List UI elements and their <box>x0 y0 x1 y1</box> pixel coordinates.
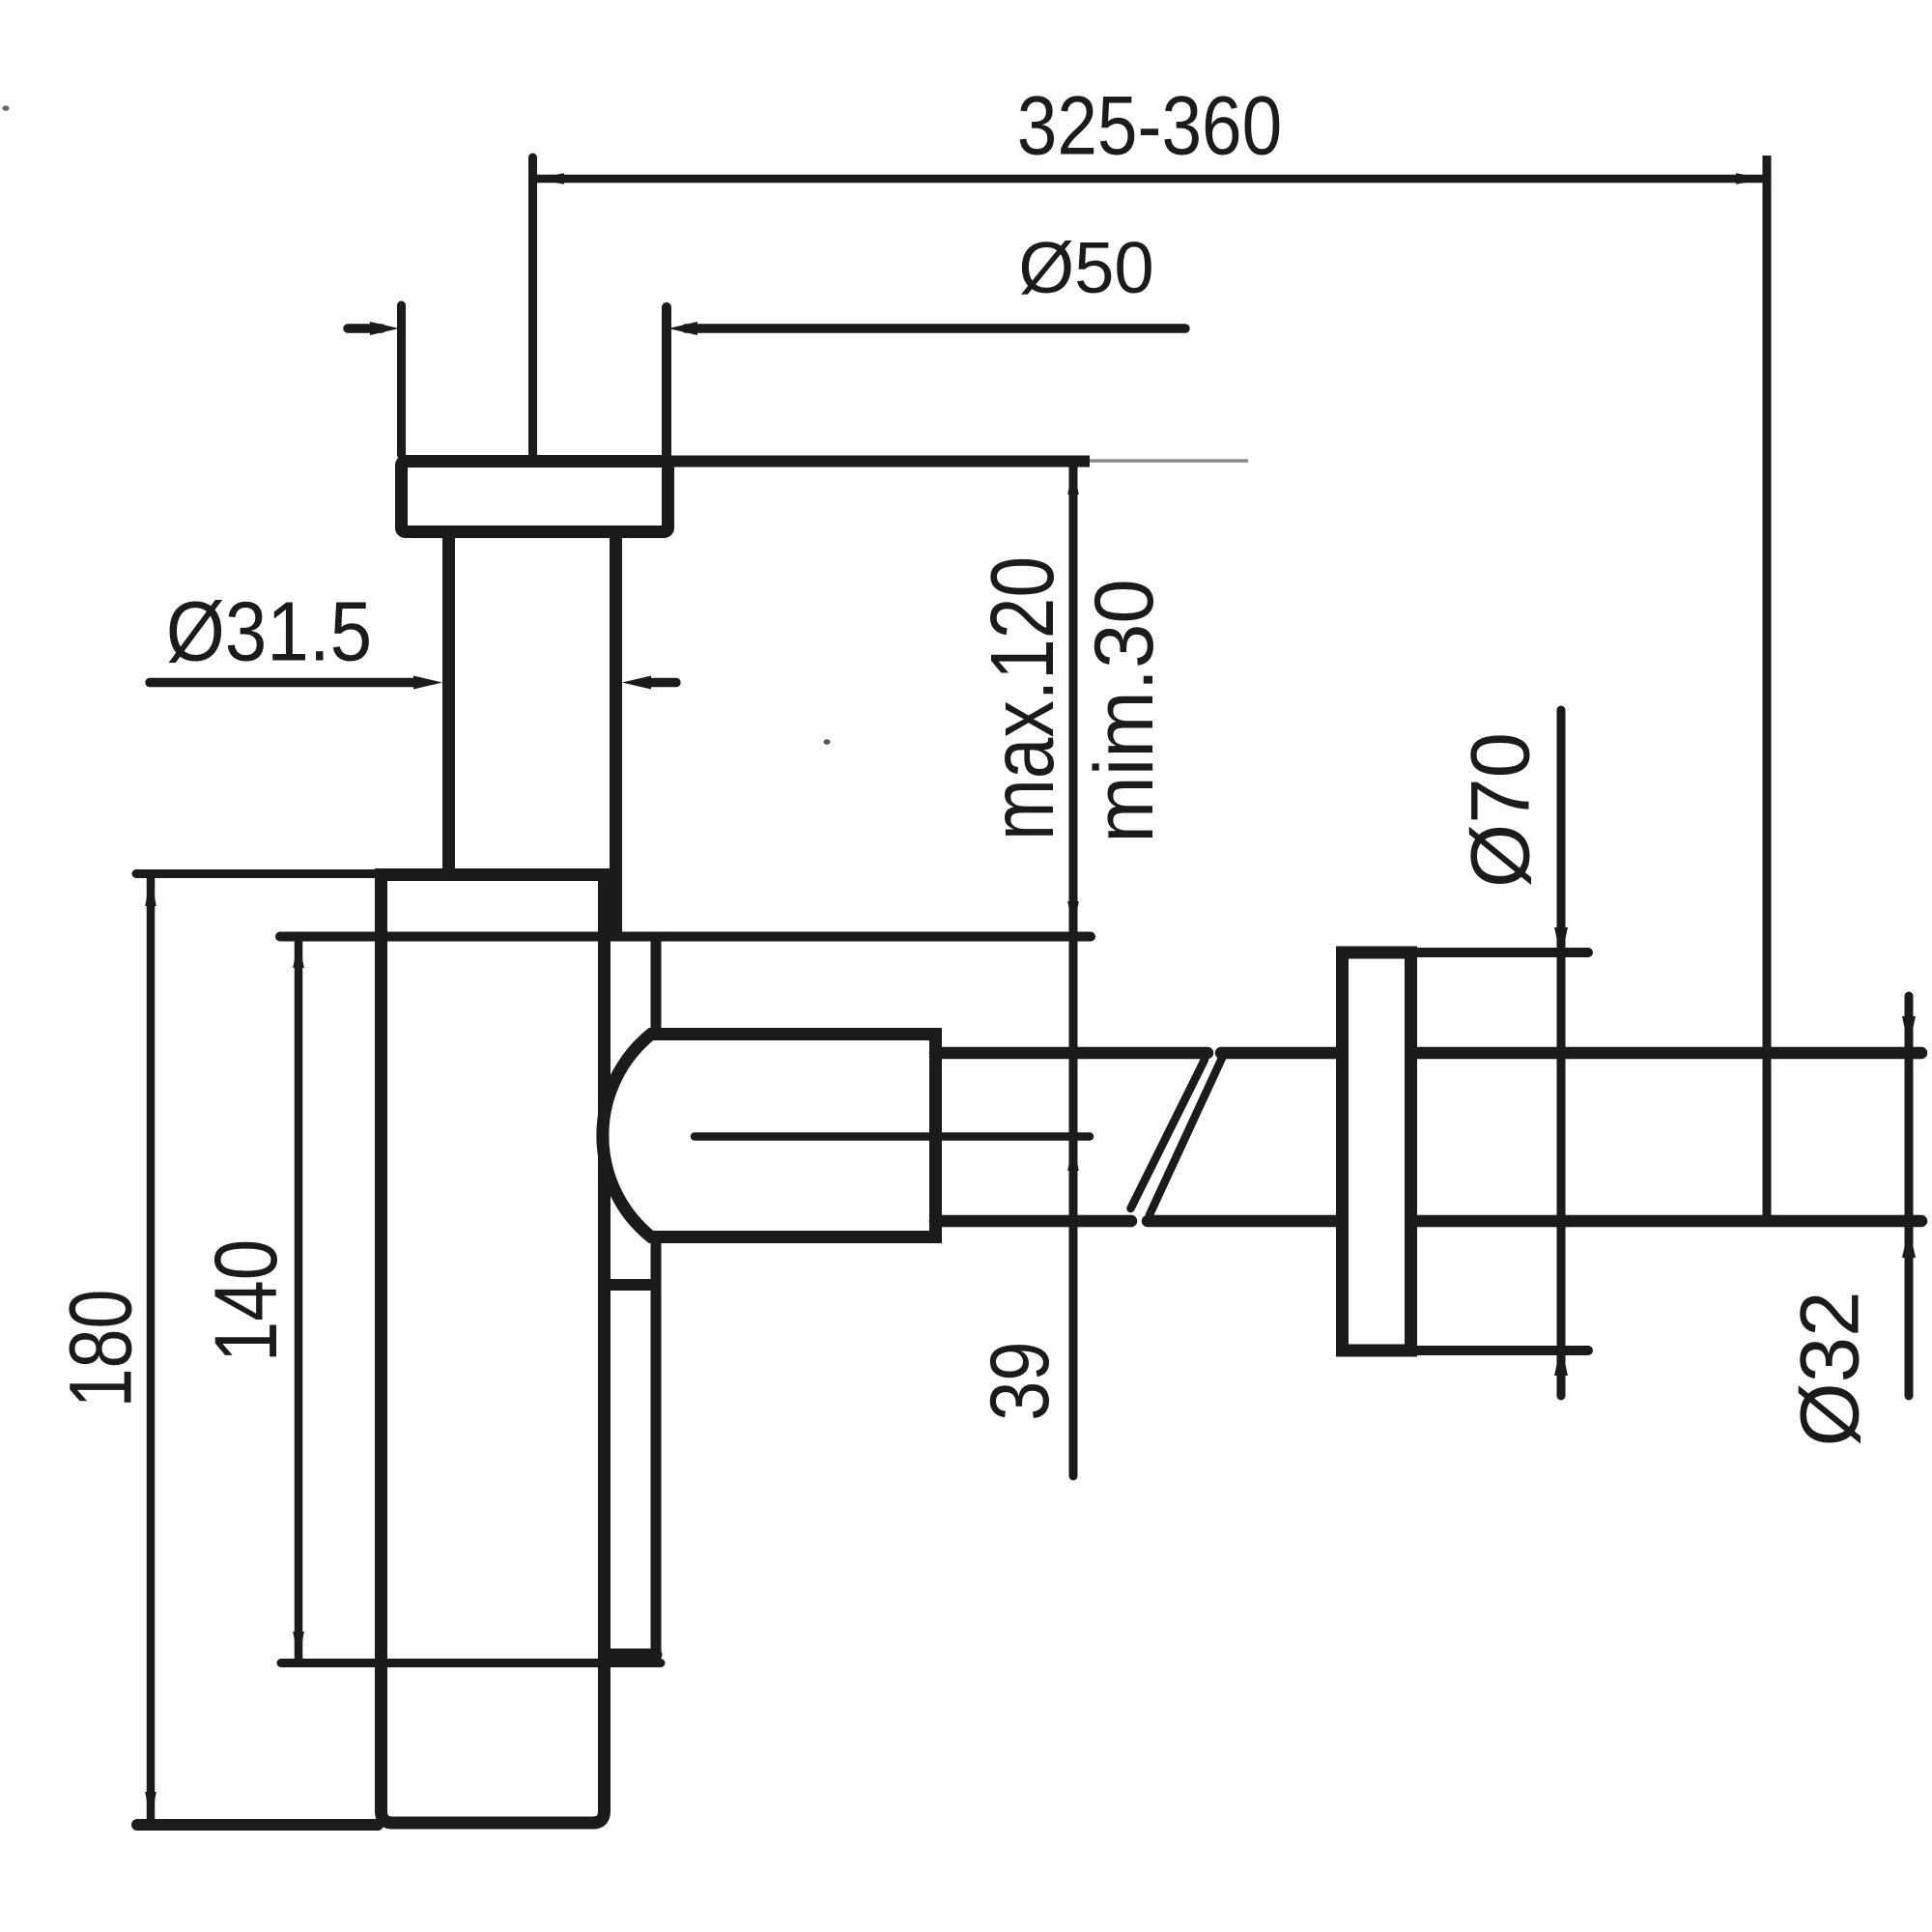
pipe break slash 2 <box>1150 1055 1224 1215</box>
svg-text:180: 180 <box>51 1290 151 1408</box>
wall line / right extension of 325-360 <box>1763 156 1772 1227</box>
arrow max.120 bottom (points down) <box>1067 901 1079 931</box>
dimension 180: top extension line <box>136 869 379 878</box>
svg-text:325-360: 325-360 <box>1017 79 1283 172</box>
arrow 180 bottom (points down) <box>145 1792 156 1822</box>
arrow Ø50 left (points right, outside) <box>370 322 399 335</box>
outlet pipe top line (left piece) <box>935 1047 1207 1060</box>
dimension max.120 / mim.30 / 39: vertical line <box>1069 464 1078 1476</box>
dimension Ø50: right piece <box>686 324 1185 333</box>
trap body (cup 180 tall) <box>382 875 605 1824</box>
dimension Ø31.5: right piece <box>643 678 676 687</box>
svg-text:max.120: max.120 <box>973 556 1073 840</box>
arrow Ø31.5 left (points right, outside) <box>413 676 442 690</box>
dimension 140: vertical line <box>295 937 303 1663</box>
svg-text:Ø70: Ø70 <box>1455 732 1547 888</box>
dimension Ø32: vertical line <box>1905 996 1914 1396</box>
elbow centerline <box>695 1132 1090 1141</box>
arrow 180 top (points up) <box>145 876 156 906</box>
arrow Ø31.5 right (points left, outside) <box>622 676 651 690</box>
neck right wall (elbow to cap) <box>651 937 662 1035</box>
arrow Ø32 top (points down, outside) <box>1902 1016 1916 1047</box>
dimension Ø70: vertical line <box>1557 710 1566 1396</box>
dimension 180: vertical line <box>147 875 156 1823</box>
pipe break slash 1 <box>1131 1060 1206 1208</box>
dimension Ø50: left extension line <box>397 305 406 455</box>
dimension 325-360: left extension line <box>528 157 537 461</box>
dimension 140: bottom extension line <box>281 1659 661 1667</box>
below-elbow cross line <box>601 1279 661 1291</box>
arrow 140 top (points up) <box>293 938 304 968</box>
sink flange (top, Ø50) <box>402 462 668 532</box>
flange bottom extension line <box>1411 1346 1588 1355</box>
cap line (top of trap nut) <box>280 932 1091 942</box>
flange-top level extension line (thin gray part) <box>1090 459 1248 463</box>
flange top extension line <box>1411 948 1588 957</box>
svg-text:39: 39 <box>973 1342 1066 1421</box>
svg-text:Ø32: Ø32 <box>1784 1292 1876 1447</box>
outlet pipe bottom line (left piece) <box>935 1215 1131 1228</box>
arrow 325-360 left (points left) <box>533 173 564 185</box>
svg-text:Ø50: Ø50 <box>1018 227 1153 308</box>
below-elbow outer wall <box>651 1240 662 1655</box>
outlet elbow (capsule) <box>603 1035 936 1237</box>
svg-text:mim.30: mim.30 <box>1077 579 1170 842</box>
dimension Ø50: right extension line <box>662 307 671 455</box>
arrow Ø70 bottom (points up, outside) <box>1554 1345 1568 1376</box>
wall flange (Ø70) <box>1343 952 1411 1350</box>
inlet tube wall left (Ø31.5) <box>442 532 455 874</box>
paper speck top-left <box>3 105 10 111</box>
arrow 39 (points up at centerline) <box>1067 1141 1079 1171</box>
dimension Ø31.5: left piece <box>150 678 420 687</box>
svg-text:140: 140 <box>195 1239 295 1362</box>
inlet tube wall right (Ø31.5) <box>610 532 622 936</box>
paper speck center <box>824 739 831 745</box>
arrow 325-360 right (points right) <box>1736 173 1767 185</box>
dimension 325-360: line <box>533 175 1767 184</box>
svg-text:Ø31.5: Ø31.5 <box>166 584 372 679</box>
arrow Ø50 right (points left, outside) <box>668 322 697 335</box>
arrow Ø70 top (points down, outside) <box>1554 927 1568 958</box>
outlet pipe bottom line (right piece) <box>1148 1215 1921 1228</box>
outlet pipe top line (right piece) <box>1221 1047 1921 1060</box>
below-elbow bottom closure <box>610 1649 656 1662</box>
arrow max.120 top (points up) <box>1067 465 1079 495</box>
arrow 140 bottom (points down) <box>293 1632 304 1662</box>
dimension 180: bottom extension line <box>137 1819 378 1831</box>
dimension Ø50: left piece <box>348 324 382 333</box>
arrow Ø32 bottom (points up, outside) <box>1902 1227 1916 1258</box>
flange-top level extension line (thick part) <box>668 456 1090 468</box>
